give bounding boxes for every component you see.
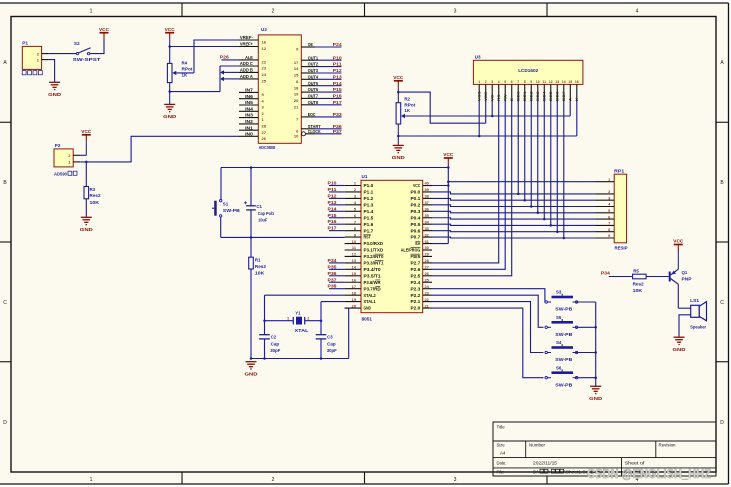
wire R5 to Q1 base [646, 276, 669, 278]
svg-text:IN1: IN1 [245, 125, 254, 130]
svg-text:RESIP: RESIP [615, 246, 628, 251]
svg-text:19: 19 [294, 92, 299, 97]
svg-text:P0.7: P0.7 [411, 235, 422, 240]
svg-text:4: 4 [498, 80, 500, 84]
svg-text:40: 40 [425, 181, 429, 186]
pushbutton S6 SW-PB [545, 365, 578, 387]
svg-text:P1.2: P1.2 [364, 196, 375, 201]
svg-text:DB3: DB3 [536, 91, 540, 101]
title block [493, 422, 716, 476]
svg-text:P10: P10 [328, 181, 338, 186]
svg-text:30pF: 30pF [270, 348, 280, 353]
svg-text:Number: Number [529, 443, 546, 448]
pushbutton S3 SW-PB [545, 290, 578, 312]
svg-text:7: 7 [354, 219, 356, 224]
svg-text:P0.1: P0.1 [411, 196, 422, 201]
wire EA to VCC rail [432, 243, 448, 245]
svg-text:OUT7: OUT7 [308, 94, 319, 99]
ground GND at buttons [589, 386, 603, 402]
svg-text:SW-PB: SW-PB [555, 332, 572, 337]
svg-text:DB4: DB4 [543, 91, 547, 101]
svg-text:P16: P16 [333, 94, 343, 99]
svg-text:IN7: IN7 [245, 88, 254, 93]
svg-text:P0.2: P0.2 [411, 202, 422, 207]
svg-text:Res2: Res2 [633, 282, 645, 287]
wires 8051 P3 port net labels [328, 258, 345, 289]
svg-text:P12: P12 [333, 68, 343, 73]
svg-text:P3.0/RXD: P3.0/RXD [364, 241, 384, 246]
svg-text:P35: P35 [328, 264, 338, 269]
svg-text:VCC: VCC [413, 183, 420, 188]
svg-text:P14: P14 [333, 81, 343, 86]
svg-text:28: 28 [262, 124, 267, 129]
wire R2 bottom to LCD VSS and K [397, 101, 577, 137]
svg-text:ADD C: ADD C [240, 61, 253, 66]
svg-text:IN6: IN6 [245, 94, 254, 99]
ground GND at speaker [673, 337, 687, 353]
svg-text:RST: RST [364, 235, 372, 240]
svg-text:ALE: ALE [245, 55, 253, 60]
svg-text:CLOCK: CLOCK [308, 129, 321, 134]
switch S2 SW-SPST [73, 41, 101, 62]
svg-text:EOC: EOC [308, 112, 316, 117]
svg-text:EA: EA [415, 241, 420, 246]
svg-text:PSEN: PSEN [411, 254, 421, 259]
svg-text:VSS: VSS [478, 91, 482, 101]
wire P1 pin1 to GND [49, 60, 55, 83]
wire speaker to GND [679, 315, 691, 337]
svg-text:A: A [569, 97, 573, 101]
svg-text:C: C [720, 300, 724, 306]
svg-text:DB1: DB1 [523, 91, 527, 101]
svg-text:S2: S2 [74, 41, 80, 46]
svg-text:26: 26 [262, 136, 267, 141]
svg-text:1: 1 [478, 80, 480, 84]
svg-text:S4: S4 [556, 340, 562, 345]
svg-text:15: 15 [294, 73, 299, 78]
svg-text:P13: P13 [328, 200, 338, 205]
svg-text:3: 3 [454, 477, 457, 483]
svg-text:OUT8: OUT8 [308, 100, 319, 105]
svg-text:14: 14 [294, 66, 299, 71]
svg-text:1: 1 [90, 9, 93, 15]
ground GND at R4 [163, 104, 177, 120]
wire XTAL2 leg [263, 295, 344, 334]
svg-text:GND: GND [364, 306, 371, 311]
svg-text:8: 8 [524, 80, 526, 84]
power VCC at Q1 [673, 239, 684, 270]
svg-text:14: 14 [562, 80, 566, 84]
ground GND at R2 [392, 145, 406, 161]
svg-text:P1: P1 [22, 41, 28, 46]
svg-text:R1: R1 [255, 258, 261, 263]
svg-text:C3: C3 [327, 334, 333, 339]
wire VCC to pin40 [432, 185, 448, 187]
svg-text:LCD1602: LCD1602 [518, 68, 538, 74]
svg-text:P2.2: P2.2 [411, 293, 422, 298]
svg-text:ADC0808: ADC0808 [259, 145, 276, 150]
svg-text:P3.4/T0: P3.4/T0 [364, 267, 382, 272]
wires LCD data bus to P0 rows [517, 101, 565, 239]
svg-text:Y1: Y1 [295, 311, 301, 316]
capacitor C1 Cap Pol1 10uF [244, 168, 275, 238]
svg-text:10: 10 [294, 133, 299, 138]
svg-text:P2.0: P2.0 [411, 306, 422, 311]
svg-text:Res2: Res2 [255, 264, 267, 269]
svg-text:P0.4: P0.4 [411, 215, 422, 220]
svg-text:P1.5: P1.5 [364, 215, 375, 220]
resistor R3 10K [84, 162, 101, 217]
svg-text:IN5: IN5 [245, 100, 254, 105]
svg-text:30: 30 [425, 245, 429, 250]
svg-text:P0.0: P0.0 [411, 190, 422, 195]
svg-text:RPot: RPot [182, 66, 194, 71]
wire Q1 emitter to speaker [678, 284, 690, 308]
svg-text:GND: GND [245, 372, 259, 378]
svg-text:P38: P38 [328, 284, 338, 289]
svg-text:U2: U2 [261, 27, 267, 32]
svg-text:22: 22 [262, 60, 267, 65]
svg-text:P34: P34 [328, 258, 338, 263]
connector P1 [22, 41, 49, 75]
svg-text:PNP: PNP [682, 277, 692, 282]
IC U1 8051 [345, 174, 432, 322]
svg-text:10: 10 [352, 239, 356, 244]
svg-text:R3: R3 [90, 187, 96, 192]
svg-text:16: 16 [575, 80, 579, 84]
IC U2 ADC0808 [239, 27, 321, 150]
svg-text:3: 3 [454, 9, 457, 15]
svg-text:7: 7 [608, 221, 610, 226]
svg-text:P0.6: P0.6 [411, 228, 422, 233]
svg-text:R5: R5 [633, 268, 639, 273]
svg-text:Cap: Cap [271, 341, 280, 346]
svg-text:4: 4 [636, 9, 639, 15]
svg-text:CSDN @ENGLISH_HHZ: CSDN @ENGLISH_HHZ [587, 466, 711, 481]
svg-text:P3.3/INT1: P3.3/INT1 [364, 261, 385, 266]
capacitor C3 30pF [316, 334, 337, 358]
resistor R1 10K [249, 237, 267, 358]
svg-text:SW-SPST: SW-SPST [73, 57, 101, 62]
svg-text:20: 20 [294, 98, 299, 103]
svg-text:DB0: DB0 [517, 91, 521, 101]
svg-text:RP1: RP1 [614, 168, 625, 173]
svg-text:DB5: DB5 [549, 91, 553, 101]
svg-text:IN0: IN0 [245, 131, 254, 136]
svg-text:P2.5: P2.5 [411, 273, 422, 278]
wires P0 bus 8051 to RP1 [432, 192, 596, 238]
svg-text:RW: RW [504, 94, 508, 101]
wires 8051 P2 to buttons [432, 289, 545, 302]
svg-text:20: 20 [352, 303, 356, 308]
ground GND at R1 and crystal [245, 357, 259, 377]
power VCC at R4 [165, 27, 176, 47]
crystal Y1 XTAL [265, 311, 322, 333]
svg-text:P2.7: P2.7 [411, 261, 422, 266]
svg-text:10uF: 10uF [258, 217, 267, 222]
svg-text:3: 3 [491, 80, 493, 84]
svg-text:P13: P13 [333, 74, 343, 79]
svg-text:P1.0: P1.0 [364, 183, 375, 188]
wires ADC outputs with net labels [315, 42, 343, 134]
svg-text:P1.7: P1.7 [364, 228, 375, 233]
svg-text:2: 2 [485, 80, 487, 84]
svg-text:2: 2 [307, 316, 309, 320]
svg-text:RPot: RPot [404, 102, 416, 107]
svg-text:P34: P34 [601, 270, 611, 275]
svg-text:27: 27 [425, 265, 429, 270]
svg-text:10K: 10K [90, 200, 100, 205]
svg-text:XTAL: XTAL [295, 328, 309, 333]
svg-text:2: 2 [272, 477, 275, 483]
wire R4 bottom to ADC address pins [168, 66, 239, 93]
svg-text:Sheet of: Sheet of [625, 461, 646, 466]
svg-text:P3.2/INT0: P3.2/INT0 [364, 254, 385, 259]
svg-text:P1.3: P1.3 [364, 202, 375, 207]
wire P2 pin1 to ADC IN0 [80, 136, 239, 163]
wire VCC rail to S1 C1 [221, 166, 450, 200]
wire XTAL1 leg [320, 302, 345, 335]
wire S2 to VCC [90, 39, 104, 53]
ground GND at P1 [48, 82, 62, 98]
svg-text:OUT1: OUT1 [308, 55, 319, 60]
svg-text:XTAL1: XTAL1 [364, 299, 377, 304]
svg-text:P26: P26 [220, 54, 230, 59]
svg-text:P37: P37 [328, 277, 338, 282]
svg-text:DB6: DB6 [556, 91, 560, 101]
svg-text:C2: C2 [271, 334, 277, 339]
svg-text:Speaker: Speaker [690, 324, 706, 329]
svg-text:2022/11/15: 2022/11/15 [533, 461, 558, 466]
svg-text:P12: P12 [328, 193, 338, 198]
svg-text:P36: P36 [328, 271, 338, 276]
svg-text:2: 2 [272, 9, 275, 15]
svg-text:9: 9 [530, 80, 532, 84]
svg-text:U1: U1 [362, 174, 368, 179]
svg-text:27: 27 [262, 130, 267, 135]
svg-text:18: 18 [294, 85, 299, 90]
svg-text:R2: R2 [404, 97, 410, 102]
svg-text:DB7: DB7 [562, 91, 566, 101]
capacitor C2 30pF [259, 334, 280, 358]
wire S1 to RST [221, 217, 345, 239]
svg-text:SW-PB: SW-PB [223, 208, 240, 213]
svg-text:11: 11 [542, 80, 546, 84]
svg-text:GND: GND [163, 114, 177, 120]
svg-text:Res2: Res2 [90, 193, 102, 198]
svg-text:Date:: Date: [497, 461, 507, 466]
svg-text:17: 17 [352, 284, 356, 289]
svg-text:10K: 10K [255, 271, 265, 276]
svg-text:23: 23 [262, 66, 267, 71]
svg-text:C: C [3, 300, 7, 306]
svg-text:P11: P11 [328, 187, 338, 192]
wire net label P34 to R5 [601, 270, 633, 276]
svg-text:1K: 1K [182, 72, 188, 77]
svg-text:SW-PB: SW-PB [555, 382, 572, 387]
pushbutton S4 SW-PB [545, 340, 578, 362]
wire buttons common to GND [578, 302, 597, 386]
svg-text:OE: OE [308, 42, 313, 47]
svg-text:6: 6 [511, 80, 513, 84]
svg-text:P2.1: P2.1 [411, 299, 422, 304]
svg-text:15: 15 [568, 80, 572, 84]
svg-text:P1.4: P1.4 [364, 209, 375, 214]
svg-text:D: D [720, 420, 724, 426]
svg-text:25: 25 [262, 79, 267, 84]
wire net label P26 to ADC ALE [220, 54, 239, 60]
svg-text:XTAL2: XTAL2 [364, 293, 377, 298]
svg-text:ADD A: ADD A [240, 74, 253, 79]
svg-text:8051: 8051 [362, 316, 373, 321]
svg-text:GND: GND [80, 227, 94, 233]
svg-text:P24: P24 [333, 42, 343, 47]
wire RP1 pin1 to VCC rail [448, 181, 595, 183]
svg-text:K: K [575, 97, 579, 101]
svg-text:GND: GND [589, 396, 603, 402]
svg-text:VCC: VCC [673, 239, 684, 244]
wire P2 pin2 to VCC [80, 154, 86, 156]
speaker LS1 [690, 298, 706, 330]
svg-text:R4: R4 [182, 60, 188, 65]
svg-text:P15: P15 [333, 87, 343, 92]
svg-text:VCC: VCC [81, 129, 92, 134]
svg-text:Title: Title [497, 424, 506, 429]
svg-text:P2.6: P2.6 [411, 267, 422, 272]
svg-text:P2.3: P2.3 [411, 286, 422, 291]
svg-text:P3.7/RD: P3.7/RD [364, 286, 381, 291]
svg-text:OUT4: OUT4 [308, 74, 319, 79]
svg-text:ADD B: ADD B [240, 68, 253, 73]
svg-text:IN2: IN2 [245, 119, 254, 124]
svg-text:1: 1 [287, 316, 289, 320]
svg-text:C1: C1 [256, 204, 262, 209]
svg-text:A4: A4 [500, 451, 506, 456]
wires 8051 P1 port net labels [328, 181, 345, 231]
wire R2 top to LCD VDD [397, 91, 486, 123]
svg-text:10K: 10K [633, 288, 643, 293]
svg-text:VO: VO [491, 95, 495, 101]
power VCC at P2 [81, 129, 92, 155]
power VCC at 8051 [443, 152, 454, 243]
svg-text:Size: Size [497, 443, 506, 448]
svg-text:P16: P16 [328, 219, 338, 224]
svg-text:12: 12 [549, 80, 553, 84]
svg-text:16: 16 [262, 40, 267, 45]
switch S1 SW-PB [212, 200, 240, 218]
svg-text:P11: P11 [333, 62, 343, 67]
power VCC at R2 [393, 75, 404, 103]
wire R2 wiper to LCD VO and A [405, 101, 570, 117]
svg-text:1K: 1K [404, 108, 410, 113]
svg-text:ALE/PROG: ALE/PROG [401, 248, 421, 253]
svg-text:IN4: IN4 [245, 106, 254, 111]
svg-text:21: 21 [294, 104, 299, 109]
svg-text:VCC: VCC [393, 75, 404, 80]
svg-text:OUT5: OUT5 [308, 81, 319, 86]
svg-text:24: 24 [262, 72, 267, 77]
svg-text:P3.6/WR: P3.6/WR [364, 280, 381, 285]
wire arrow ADD A [220, 77, 239, 81]
svg-text:5: 5 [504, 80, 506, 84]
svg-text:GND: GND [48, 92, 62, 98]
svg-text:File:: File: [497, 469, 505, 474]
svg-text:S6: S6 [556, 365, 562, 370]
watermark CSDN [587, 466, 711, 481]
svg-text:P15: P15 [328, 213, 338, 218]
wire R4 wiper to ADC VREF- [194, 40, 239, 73]
svg-text:P10: P10 [333, 55, 343, 60]
svg-text:Q1: Q1 [682, 270, 688, 275]
svg-text:S5: S5 [556, 315, 562, 320]
wire VCC to ADC VREF+ [168, 45, 239, 48]
ground GND at R3 [80, 217, 94, 233]
svg-text:10: 10 [536, 80, 540, 84]
svg-text:SW-PB: SW-PB [555, 307, 572, 312]
wire P1 pin2 to S2 [49, 53, 77, 55]
svg-text:VREF-: VREF- [240, 35, 254, 40]
svg-text:P3.5/T1: P3.5/T1 [364, 273, 382, 278]
svg-text:7: 7 [517, 80, 519, 84]
svg-text:30pF: 30pF [327, 348, 337, 353]
potentiometer R4 1K [167, 47, 194, 105]
svg-text:GND: GND [673, 347, 687, 353]
svg-text:LS1: LS1 [690, 298, 700, 303]
svg-text:VCC: VCC [165, 27, 176, 32]
wire 8051 GND pin [345, 308, 349, 358]
pushbutton S5 SW-PB [545, 315, 578, 337]
svg-text:VCC: VCC [443, 152, 454, 157]
svg-text:P17: P17 [333, 100, 343, 105]
transistor Q1 PNP [669, 269, 692, 284]
svg-text:Cap Pol1: Cap Pol1 [258, 211, 275, 216]
svg-text:OUT2: OUT2 [308, 62, 319, 67]
svg-text:RS: RS [497, 94, 501, 101]
svg-text:P14: P14 [328, 206, 338, 211]
svg-text:Revision: Revision [659, 443, 677, 448]
svg-text:AD590: AD590 [54, 171, 68, 176]
svg-text:S3: S3 [556, 290, 562, 295]
svg-text:P17: P17 [328, 226, 338, 231]
svg-text:P2: P2 [55, 143, 61, 148]
svg-text:P0.5: P0.5 [411, 222, 422, 227]
svg-text:P1.6: P1.6 [364, 222, 375, 227]
svg-text:VREF+: VREF+ [240, 42, 254, 47]
svg-text:1: 1 [90, 477, 93, 483]
svg-text:S1: S1 [223, 201, 229, 206]
svg-text:IN3: IN3 [245, 113, 254, 118]
svg-text:17: 17 [294, 60, 299, 65]
wire ground rail of crystal [251, 357, 349, 360]
svg-text:OUT3: OUT3 [308, 68, 319, 73]
svg-text:P0.3: P0.3 [411, 209, 422, 214]
LCD module U3 LCD1602 [473, 55, 583, 102]
resistor pack RP1 RESIP [596, 168, 628, 250]
svg-text:D:\: D:\ [533, 469, 539, 474]
connector P2 [54, 143, 80, 176]
svg-text:12: 12 [262, 46, 267, 51]
potentiometer R2 1K [396, 97, 416, 146]
svg-text:VCC: VCC [99, 27, 110, 32]
svg-text:P3.1/TXD: P3.1/TXD [364, 248, 384, 253]
svg-text:P2.4: P2.4 [411, 280, 422, 285]
power VCC at S2 [99, 27, 110, 39]
wire arrow ADD B [220, 70, 239, 74]
svg-text:Cap: Cap [327, 341, 336, 346]
svg-text:13: 13 [555, 80, 559, 84]
svg-text:P1.1: P1.1 [364, 190, 375, 195]
svg-text:P37: P37 [333, 129, 343, 134]
